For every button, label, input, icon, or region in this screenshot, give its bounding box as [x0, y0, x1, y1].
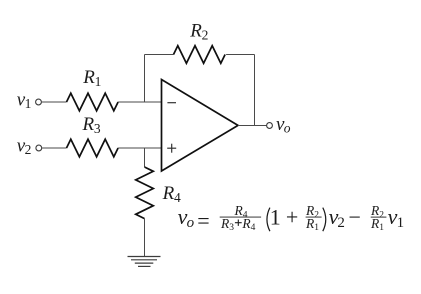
wire feedback vertical right [254, 55, 256, 126]
label v1 [17, 89, 32, 111]
op-amp U1 triangle [162, 80, 239, 172]
svg-text:1: 1 [314, 223, 319, 233]
svg-text:4: 4 [251, 223, 256, 233]
label R4 [162, 183, 181, 205]
open paren [267, 208, 270, 232]
wire v1 to R1 [41, 101, 66, 103]
svg-text:1: 1 [270, 204, 281, 229]
svg-text:4: 4 [174, 190, 181, 205]
svg-text:2: 2 [25, 142, 32, 157]
svg-text:2: 2 [202, 28, 209, 43]
svg-text:3: 3 [229, 223, 234, 233]
svg-text:1: 1 [397, 215, 405, 231]
svg-text:2: 2 [337, 215, 345, 231]
wire R4 to ground [144, 219, 146, 257]
op-amp minus sign [167, 102, 176, 104]
svg-text:−: − [349, 205, 361, 230]
resistor R2 [174, 46, 226, 64]
wire R3 to non-inverting input [118, 147, 161, 149]
wire feedback top left [145, 54, 174, 56]
svg-text:R: R [189, 21, 202, 42]
label vo [276, 114, 291, 136]
svg-text:o: o [284, 120, 291, 135]
close paren [323, 208, 326, 232]
wire v2 to R3 [42, 147, 67, 149]
wire op-amp output [238, 125, 267, 127]
svg-text:R: R [162, 183, 175, 204]
wire feedback top right [226, 54, 254, 56]
svg-text:R: R [82, 67, 95, 88]
label R3 [82, 114, 101, 136]
label R1 [82, 67, 101, 89]
resistor R3 [67, 139, 119, 157]
formula vo = R4/(R3+R4)(1+R2/R1)v2 - R2/R1 v1 [178, 203, 405, 233]
svg-text:2: 2 [379, 210, 384, 220]
svg-text:+: + [286, 205, 298, 230]
svg-text:2: 2 [314, 210, 319, 220]
label v2 [17, 135, 32, 157]
wire feedback vertical left [144, 55, 146, 103]
terminal vo circle [267, 123, 273, 129]
svg-text:1: 1 [379, 223, 384, 233]
terminal v2 circle [36, 145, 42, 151]
wire R1 to inverting input [118, 101, 161, 103]
ground [128, 257, 161, 267]
svg-text:o: o [187, 215, 195, 231]
label R2 [189, 21, 208, 43]
svg-text:1: 1 [95, 74, 102, 89]
op-amp plus sign [167, 144, 176, 153]
wire R4 top [144, 148, 146, 167]
resistor R4 [136, 167, 154, 219]
resistor R1 [67, 93, 119, 111]
terminal v1 circle [36, 99, 42, 105]
svg-text:3: 3 [94, 121, 101, 136]
svg-text:=: = [197, 208, 209, 233]
svg-text:1: 1 [25, 96, 32, 111]
svg-text:R: R [82, 114, 95, 135]
